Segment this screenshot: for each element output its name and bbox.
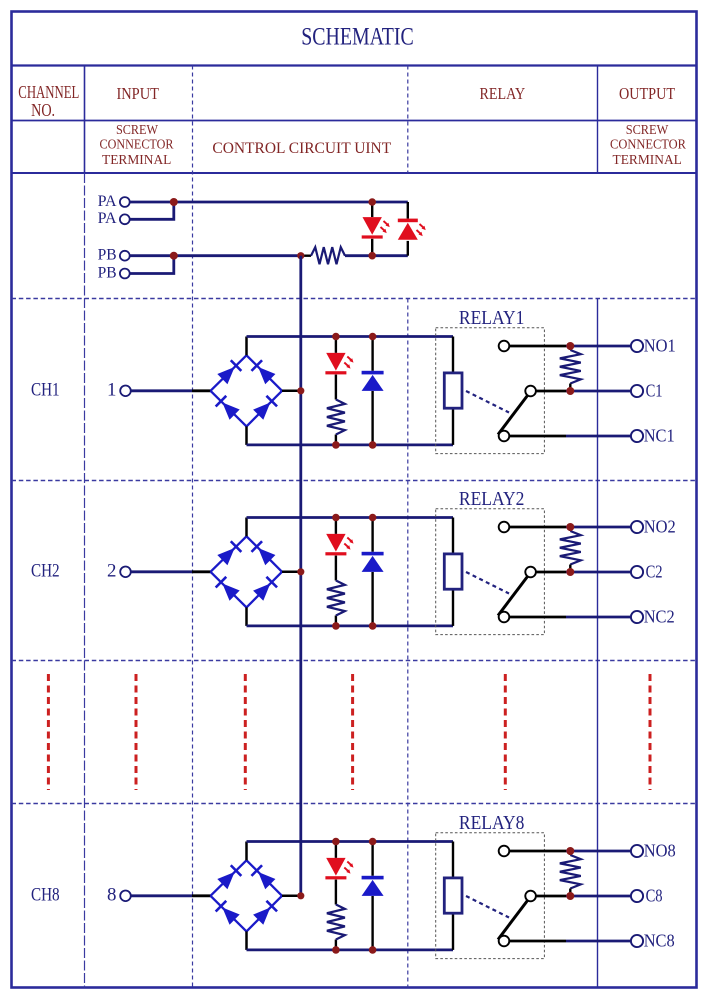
svg-text:PB: PB [98, 264, 117, 281]
LED D2 (down) [325, 534, 353, 556]
LED DA (down) [362, 217, 390, 238]
relay coil leads K2 [452, 518, 454, 554]
junction diode bottom CH2 [369, 622, 377, 630]
relay box RELAY2 [436, 509, 545, 635]
wire resistor to LED branch [345, 254, 408, 257]
terminal PB2 [120, 269, 130, 279]
wire PB2 up to junction [130, 256, 174, 274]
header CHANNEL NO. [18, 82, 79, 120]
junction diode bottom CH8 [369, 946, 377, 954]
bridge output wire to common CH1 [282, 390, 301, 393]
svg-text:NO2: NO2 [644, 517, 676, 537]
svg-text:NO1: NO1 [644, 336, 676, 356]
junction bridge-common CH2 [297, 568, 304, 575]
wire PB1 to junction [130, 254, 174, 257]
column line RELAY/OUTPUT [597, 66, 599, 174]
wire PB rail to resistor [174, 254, 301, 257]
svg-text:RELAY: RELAY [479, 84, 525, 103]
header output SCREW CONNECTOR TERMINAL [610, 122, 686, 167]
output terminal C8 [631, 890, 643, 902]
junction LED bottom CH2 [332, 622, 340, 630]
continuation mark 6 (red dashed) [649, 674, 652, 790]
svg-text:SCREW: SCREW [116, 122, 158, 137]
input terminal circle 2 [120, 567, 131, 578]
snubber RV8 [560, 851, 581, 896]
svg-text:CONTROL CIRCUIT UINT: CONTROL CIRCUIT UINT [212, 138, 391, 157]
bridge output wire to common CH2 [282, 571, 301, 574]
header bottom line [12, 172, 697, 174]
diode Z1 leads [371, 337, 373, 371]
bridge rectifier BR2 [211, 536, 283, 607]
wire input 8 to bridge [131, 894, 192, 897]
svg-text:CONNECTOR: CONNECTOR [100, 137, 174, 152]
input terminal circle 8 [120, 891, 131, 902]
title row separator line [12, 64, 697, 66]
contact NC wire CH8 [509, 940, 566, 943]
junction diode bottom CH1 [369, 441, 377, 449]
svg-text:PB: PB [98, 247, 117, 264]
diode Z1 (up, blue) [362, 371, 384, 391]
row separator CH1/CH2 (dashed) [12, 480, 697, 482]
svg-text:NO.: NO. [31, 100, 55, 120]
resistor R8 [327, 905, 345, 940]
contact NO wire CH1 [509, 345, 566, 348]
relay box RELAY1 [436, 328, 545, 454]
junction bridge-common CH8 [297, 892, 304, 899]
contact NC circle CH2 [499, 612, 510, 623]
output terminal NC1 [631, 430, 643, 442]
mechanical link K1 (dashed) [466, 391, 509, 413]
contact NO circle CH1 [499, 341, 510, 352]
bridge bottom lead CH8 [245, 931, 248, 950]
svg-text:CH2: CH2 [31, 561, 60, 582]
switch pivot circle CH8 [525, 891, 536, 902]
svg-text:INPUT: INPUT [116, 84, 159, 103]
LED D1 (down) [325, 353, 353, 375]
bridge bottom lead CH2 [245, 607, 248, 626]
bridge rectifier BR8 [211, 860, 283, 931]
junction snubber top CH1 [566, 342, 574, 350]
svg-text:RELAY1: RELAY1 [459, 308, 525, 329]
column line CONTROL/RELAY (dashed) [407, 66, 409, 174]
junction snubber bottom CH2 [566, 568, 574, 576]
junction snubber bottom CH8 [566, 892, 574, 900]
junction LED top CH8 [332, 838, 340, 846]
junction LED top CH1 [332, 333, 340, 341]
mechanical link K2 (dashed) [466, 572, 509, 594]
snubber RV1 [560, 346, 581, 391]
contact NC wire CH2 [509, 616, 566, 619]
svg-text:C2: C2 [646, 562, 663, 582]
switch pivot circle CH2 [525, 567, 536, 578]
contact NO wire CH2 [509, 526, 566, 529]
output terminal NO1 [631, 340, 643, 352]
svg-text:NO8: NO8 [644, 841, 676, 861]
relay box RELAY8 [436, 833, 545, 959]
output terminal NO2 [631, 521, 643, 533]
bridge bottom lead CH1 [245, 426, 248, 445]
LED branch leads CH2 [335, 518, 337, 534]
svg-text:8: 8 [107, 885, 116, 906]
output terminal NC2 [631, 611, 643, 623]
junction snubber top CH8 [566, 847, 574, 855]
switch pivot circle CH1 [525, 386, 536, 397]
contact NC circle CH8 [499, 936, 510, 947]
wire PA top rail [174, 201, 408, 204]
resistor R power [301, 254, 311, 256]
svg-text:C1: C1 [646, 381, 663, 401]
contact NC wire CH1 [509, 435, 566, 438]
svg-text:CHANNEL: CHANNEL [18, 82, 79, 102]
diode Z8 (up, blue) [362, 876, 384, 896]
column line INPUT/CONTROL (dashed) [192, 66, 194, 988]
bridge rectifier BR1 [211, 355, 283, 426]
bridge top lead CH1 [245, 337, 248, 356]
diode Z2 (up, blue) [362, 552, 384, 572]
LED DA branch leads [371, 202, 373, 217]
wire input 1 to bridge [131, 389, 192, 392]
svg-text:TERMINAL: TERMINAL [102, 152, 171, 167]
svg-text:SCHEMATIC: SCHEMATIC [301, 24, 414, 51]
common vertical wire to CH8 [299, 256, 302, 896]
contact NO circle CH2 [499, 522, 510, 533]
junction snubber bottom CH1 [566, 387, 574, 395]
output terminal NO8 [631, 845, 643, 857]
bridge top lead CH8 [245, 842, 248, 861]
svg-text:CH1: CH1 [31, 380, 60, 401]
junction LED bottom CH1 [332, 441, 340, 449]
input terminal circle 1 [120, 386, 131, 397]
bridge output wire to common CH8 [282, 895, 301, 898]
output terminal C2 [631, 566, 643, 578]
top rail CH2 [247, 516, 454, 519]
svg-text:OUTPUT: OUTPUT [619, 84, 676, 103]
snubber RV2 [560, 527, 581, 572]
header input SCREW CONNECTOR TERMINAL [100, 122, 174, 167]
svg-text:RELAY8: RELAY8 [459, 813, 525, 834]
continuation mark 1 (red dashed) [47, 674, 50, 790]
junction snubber top CH2 [566, 523, 574, 531]
junction diode top CH1 [369, 333, 377, 341]
wire input 2 to bridge [131, 570, 192, 573]
relay coil K8 [444, 878, 462, 913]
resistor R2 [327, 581, 345, 616]
relay coil leads K1 [452, 337, 454, 373]
LED DB (up) [398, 219, 426, 240]
svg-text:NC2: NC2 [644, 607, 675, 627]
junction LED DA top [368, 198, 376, 206]
row separator PA/CH1 (dashed) [12, 298, 697, 300]
row separator CH2/dots (dashed) [12, 660, 697, 662]
svg-text:TERMINAL: TERMINAL [613, 152, 682, 167]
switch arm CH2 [498, 577, 528, 616]
terminal PB1 [120, 251, 130, 261]
row separator dots/CH8 (dashed) [12, 803, 697, 805]
resistor R1 [327, 400, 345, 435]
continuation mark 2 (red dashed) [135, 674, 138, 790]
continuation mark 4 (red dashed) [351, 674, 354, 790]
LED branch leads CH8 [335, 842, 337, 858]
junction PA [170, 198, 178, 206]
continuation mark 5 (red dashed) [504, 674, 507, 790]
top rail CH8 [247, 840, 454, 843]
terminal PA1 [120, 197, 130, 207]
svg-text:RELAY2: RELAY2 [459, 489, 525, 510]
svg-text:SCREW: SCREW [626, 122, 669, 137]
switch arm CH8 [498, 901, 528, 940]
junction LED DA bottom [368, 252, 376, 260]
junction PB [170, 252, 178, 260]
svg-text:NC8: NC8 [644, 931, 675, 951]
junction common rail tap [297, 252, 304, 259]
svg-text:CONNECTOR: CONNECTOR [610, 137, 686, 152]
contact C wire CH8 [536, 895, 566, 898]
svg-text:PA: PA [98, 193, 118, 210]
svg-text:NC1: NC1 [644, 426, 675, 446]
contact C wire CH1 [536, 390, 566, 393]
svg-text:1: 1 [107, 380, 116, 401]
wire PA1 to junction [130, 201, 174, 204]
switch arm CH1 [498, 396, 528, 435]
relay coil K1 [444, 373, 462, 408]
header row separator line [12, 120, 697, 122]
junction diode top CH2 [369, 514, 377, 522]
output terminal NC8 [631, 935, 643, 947]
bottom rail CH1 [247, 443, 454, 446]
svg-text:2: 2 [107, 561, 116, 582]
svg-text:C8: C8 [646, 886, 663, 906]
contact C wire CH2 [536, 571, 566, 574]
junction LED top CH2 [332, 514, 340, 522]
top rail CH1 [247, 335, 454, 338]
junction LED bottom CH8 [332, 946, 340, 954]
junction bridge-common CH1 [297, 387, 304, 394]
continuation mark 3 (red dashed) [244, 674, 247, 790]
column line CHANNEL/INPUT [84, 66, 86, 174]
svg-text:CH8: CH8 [31, 885, 60, 906]
contact NC circle CH1 [499, 431, 510, 442]
terminal PA2 [120, 214, 130, 224]
LED branch leads CH1 [335, 337, 337, 353]
junction diode top CH8 [369, 838, 377, 846]
LED D8 (down) [325, 858, 353, 880]
bridge top lead CH2 [245, 518, 248, 537]
mechanical link K8 (dashed) [466, 896, 509, 918]
contact NO circle CH8 [499, 846, 510, 857]
diode Z2 leads [371, 518, 373, 552]
svg-text:PA: PA [98, 210, 118, 227]
relay coil K2 [444, 554, 462, 589]
bottom rail CH2 [247, 625, 454, 628]
relay coil leads K8 [452, 842, 454, 878]
diode Z8 leads [371, 842, 373, 876]
contact NO wire CH8 [509, 850, 566, 853]
LED DB branch wire (right loop) [407, 202, 409, 219]
bottom rail CH8 [247, 949, 454, 952]
output terminal C1 [631, 385, 643, 397]
wire PA2 up to junction [130, 202, 174, 219]
